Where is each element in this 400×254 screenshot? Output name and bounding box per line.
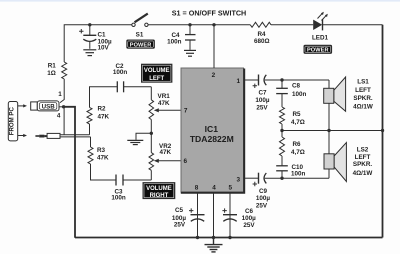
speaker LS1 bbox=[324, 77, 346, 111]
faint scan band top bbox=[0, 0, 400, 2]
capacitor C9 bbox=[253, 173, 267, 187]
wire LED to right rail bbox=[323, 24, 383, 26]
svg-text:S1 = ON/OFF SWITCH: S1 = ON/OFF SWITCH bbox=[172, 9, 246, 18]
wire pin3 to C9 bbox=[245, 177, 259, 179]
wire R2 to C2 bbox=[90, 87, 118, 108]
svg-text:LS1: LS1 bbox=[357, 78, 369, 85]
svg-text:C8: C8 bbox=[292, 82, 301, 89]
node C4 junction bbox=[188, 23, 191, 26]
wire USB pin4 stub bbox=[59, 106, 64, 108]
capacitor C5 bbox=[189, 208, 205, 221]
svg-text:FROM PC: FROM PC bbox=[8, 107, 15, 136]
node USB pin4 bbox=[62, 105, 65, 108]
svg-text:LEFT: LEFT bbox=[355, 87, 371, 94]
resistor R2 bbox=[87, 107, 92, 124]
wire LS1 bottom to ground bbox=[328, 103, 330, 130]
wire pin5 down bbox=[229, 193, 231, 238]
capacitor C3 bbox=[116, 175, 123, 186]
svg-text:1: 1 bbox=[237, 78, 241, 85]
ground main bbox=[205, 238, 223, 252]
resistor R4 bbox=[250, 22, 271, 27]
svg-text:C5: C5 bbox=[175, 207, 184, 214]
wiper VR2 to pin6 bbox=[154, 159, 181, 163]
badge VOLUME LEFT bbox=[142, 64, 172, 82]
ground below C4 bbox=[184, 50, 196, 56]
LED LED1 bbox=[313, 12, 328, 31]
svg-text:LEFT: LEFT bbox=[355, 154, 371, 161]
wire top rail switch to R4 bbox=[148, 24, 250, 26]
wire ground to LS2 top bbox=[328, 131, 330, 154]
svg-text:10V: 10V bbox=[98, 44, 110, 51]
wire jack to R3 bbox=[90, 137, 92, 147]
svg-text:SPKR.: SPKR. bbox=[353, 161, 372, 168]
wire pin8 down bbox=[197, 193, 199, 238]
capacitor C10 bbox=[276, 156, 288, 178]
svg-text:47K: 47K bbox=[158, 100, 170, 107]
capacitor C2 bbox=[117, 81, 123, 92]
svg-text:POWER: POWER bbox=[307, 48, 329, 54]
wire jack to R2 bbox=[89, 124, 91, 135]
svg-text:100µ: 100µ bbox=[255, 97, 270, 104]
arrow FROM PC to jack bbox=[18, 134, 27, 137]
svg-text:100n: 100n bbox=[292, 91, 307, 98]
badge POWER under S1 bbox=[127, 40, 155, 49]
wire C2 node down to VR1 bbox=[150, 87, 152, 100]
svg-text:1Ω: 1Ω bbox=[47, 70, 56, 77]
wire R4 to LED bbox=[271, 24, 313, 26]
svg-text:R2: R2 bbox=[98, 105, 107, 112]
audio jack plug bbox=[35, 133, 60, 138]
resistor R3 bbox=[88, 147, 93, 164]
svg-text:S1: S1 bbox=[136, 31, 144, 38]
svg-text:4: 4 bbox=[57, 113, 61, 120]
node speaker mid junction bbox=[327, 129, 330, 132]
node pin8 ground bbox=[196, 236, 199, 239]
potentiometer VR1 bbox=[149, 100, 154, 120]
wire pin2 supply bbox=[213, 25, 215, 68]
svg-text:100µ: 100µ bbox=[256, 195, 271, 202]
svg-text:100n: 100n bbox=[111, 195, 126, 202]
wire VR1 to ground node bbox=[150, 120, 152, 134]
svg-text:POWER: POWER bbox=[130, 43, 152, 49]
wire pin4 down bbox=[213, 193, 215, 238]
svg-text:25V: 25V bbox=[243, 222, 255, 229]
svg-text:7: 7 bbox=[184, 108, 188, 115]
wire C7 line to LS1 top bbox=[328, 80, 330, 88]
svg-text:C7: C7 bbox=[258, 89, 267, 96]
svg-text:TDA2822M: TDA2822M bbox=[190, 134, 234, 144]
svg-text:1: 1 bbox=[58, 91, 62, 98]
node VR ground junction bbox=[150, 132, 153, 135]
svg-text:R1: R1 bbox=[48, 63, 57, 70]
svg-text:LEFT: LEFT bbox=[149, 76, 164, 82]
svg-text:4Ω/1W: 4Ω/1W bbox=[353, 104, 373, 111]
wire to ground symbol bbox=[136, 133, 151, 140]
svg-text:25V: 25V bbox=[256, 104, 268, 111]
wire pin4 to jack sleeve bbox=[63, 107, 65, 135]
node IC pin2 supply junction bbox=[212, 23, 215, 26]
node pin5 ground bbox=[228, 236, 231, 239]
node zobel right junction bbox=[280, 177, 283, 180]
node pin4 ground bbox=[212, 236, 215, 239]
capacitor C8 bbox=[276, 80, 288, 107]
wire jack ring line bbox=[60, 136, 91, 138]
svg-text:R3: R3 bbox=[97, 147, 106, 154]
svg-text:25V: 25V bbox=[256, 203, 268, 210]
svg-text:R5: R5 bbox=[293, 111, 302, 118]
wire R3 to C3 bbox=[91, 164, 117, 180]
svg-text:C9: C9 bbox=[259, 188, 268, 195]
svg-text:3: 3 bbox=[237, 176, 241, 183]
speaker LS2 bbox=[324, 143, 346, 182]
FROM PC source box bbox=[8, 102, 17, 141]
resistor R5 bbox=[280, 107, 285, 124]
node C1 supply junction bbox=[88, 23, 91, 26]
svg-text:4: 4 bbox=[212, 184, 216, 191]
svg-text:8: 8 bbox=[195, 184, 199, 191]
svg-text:4,7Ω: 4,7Ω bbox=[291, 149, 305, 156]
wire thick ground from pin4 bbox=[64, 107, 75, 238]
resistor R1 bbox=[62, 62, 67, 79]
wire speaker ground bbox=[282, 130, 383, 132]
svg-text:LS2: LS2 bbox=[357, 146, 369, 153]
resistor R6 bbox=[280, 137, 285, 156]
wire LS2 bottom to C9 line bbox=[328, 169, 330, 178]
svg-text:VOLUME: VOLUME bbox=[144, 68, 170, 74]
capacitor C7 bbox=[253, 75, 267, 89]
wire C3 to VR2 bbox=[123, 179, 151, 181]
potentiometer VR2 bbox=[149, 153, 154, 171]
svg-text:680Ω: 680Ω bbox=[254, 38, 270, 45]
svg-text:25V: 25V bbox=[174, 222, 186, 229]
wire C2 to VR1 bbox=[124, 86, 152, 88]
node ground rail right junction bbox=[381, 129, 384, 132]
wire +5V top rail left segment bbox=[64, 25, 132, 62]
wire VR2 to C3 line bbox=[150, 170, 152, 180]
svg-text:IC1: IC1 bbox=[205, 124, 219, 134]
wire R1 to USB pin1 bbox=[60, 79, 64, 103]
svg-text:2: 2 bbox=[212, 72, 216, 79]
wire C9 to LS2 bbox=[265, 177, 329, 179]
wire pin1 to C7 bbox=[245, 79, 259, 81]
svg-text:SPKR.: SPKR. bbox=[353, 95, 372, 102]
svg-text:5: 5 bbox=[229, 184, 233, 191]
wire R5 to gnd wire bbox=[281, 124, 283, 137]
node zobel left junction bbox=[280, 78, 283, 81]
ground below C1 bbox=[83, 50, 96, 56]
arrow FROM PC to USB bbox=[18, 104, 27, 107]
svg-text:USB: USB bbox=[42, 103, 56, 110]
svg-text:47K: 47K bbox=[98, 114, 110, 121]
badge VOLUME RIGHT bbox=[143, 183, 175, 200]
node speaker ground left bbox=[280, 129, 283, 132]
wire C7 to LS1 bbox=[265, 79, 329, 81]
capacitor C1 bbox=[79, 25, 96, 49]
svg-text:6: 6 bbox=[184, 158, 188, 165]
svg-text:100n: 100n bbox=[113, 69, 128, 76]
capacitor C6 bbox=[222, 208, 237, 221]
capacitor C4 bbox=[185, 25, 196, 50]
svg-text:100n: 100n bbox=[167, 39, 182, 46]
wire right ground rail bbox=[382, 25, 384, 238]
svg-text:4,7Ω: 4,7Ω bbox=[291, 119, 305, 126]
badge POWER under LED1 bbox=[304, 45, 332, 54]
USB connector bbox=[31, 101, 59, 111]
svg-text:RIGHT: RIGHT bbox=[150, 193, 169, 199]
ground at volume pots bbox=[127, 140, 143, 144]
wire jack tip line bbox=[60, 134, 90, 136]
op-amp IC1 TDA2822M body bbox=[181, 68, 244, 193]
svg-text:47K: 47K bbox=[160, 149, 172, 156]
svg-text:C6: C6 bbox=[245, 208, 254, 215]
svg-text:LED1: LED1 bbox=[312, 34, 329, 41]
switch S1 bbox=[132, 14, 148, 27]
svg-text:4Ω/1W: 4Ω/1W bbox=[353, 170, 373, 177]
wire bottom ground rail bbox=[75, 237, 383, 239]
wire ground node to VR2 bbox=[150, 133, 152, 152]
svg-text:100n: 100n bbox=[291, 170, 306, 177]
svg-text:47K: 47K bbox=[97, 155, 109, 162]
svg-text:VOLUME: VOLUME bbox=[146, 186, 172, 192]
svg-text:R6: R6 bbox=[293, 141, 302, 148]
wiper VR1 to pin7 bbox=[154, 108, 181, 112]
svg-text:VR1: VR1 bbox=[158, 93, 171, 100]
